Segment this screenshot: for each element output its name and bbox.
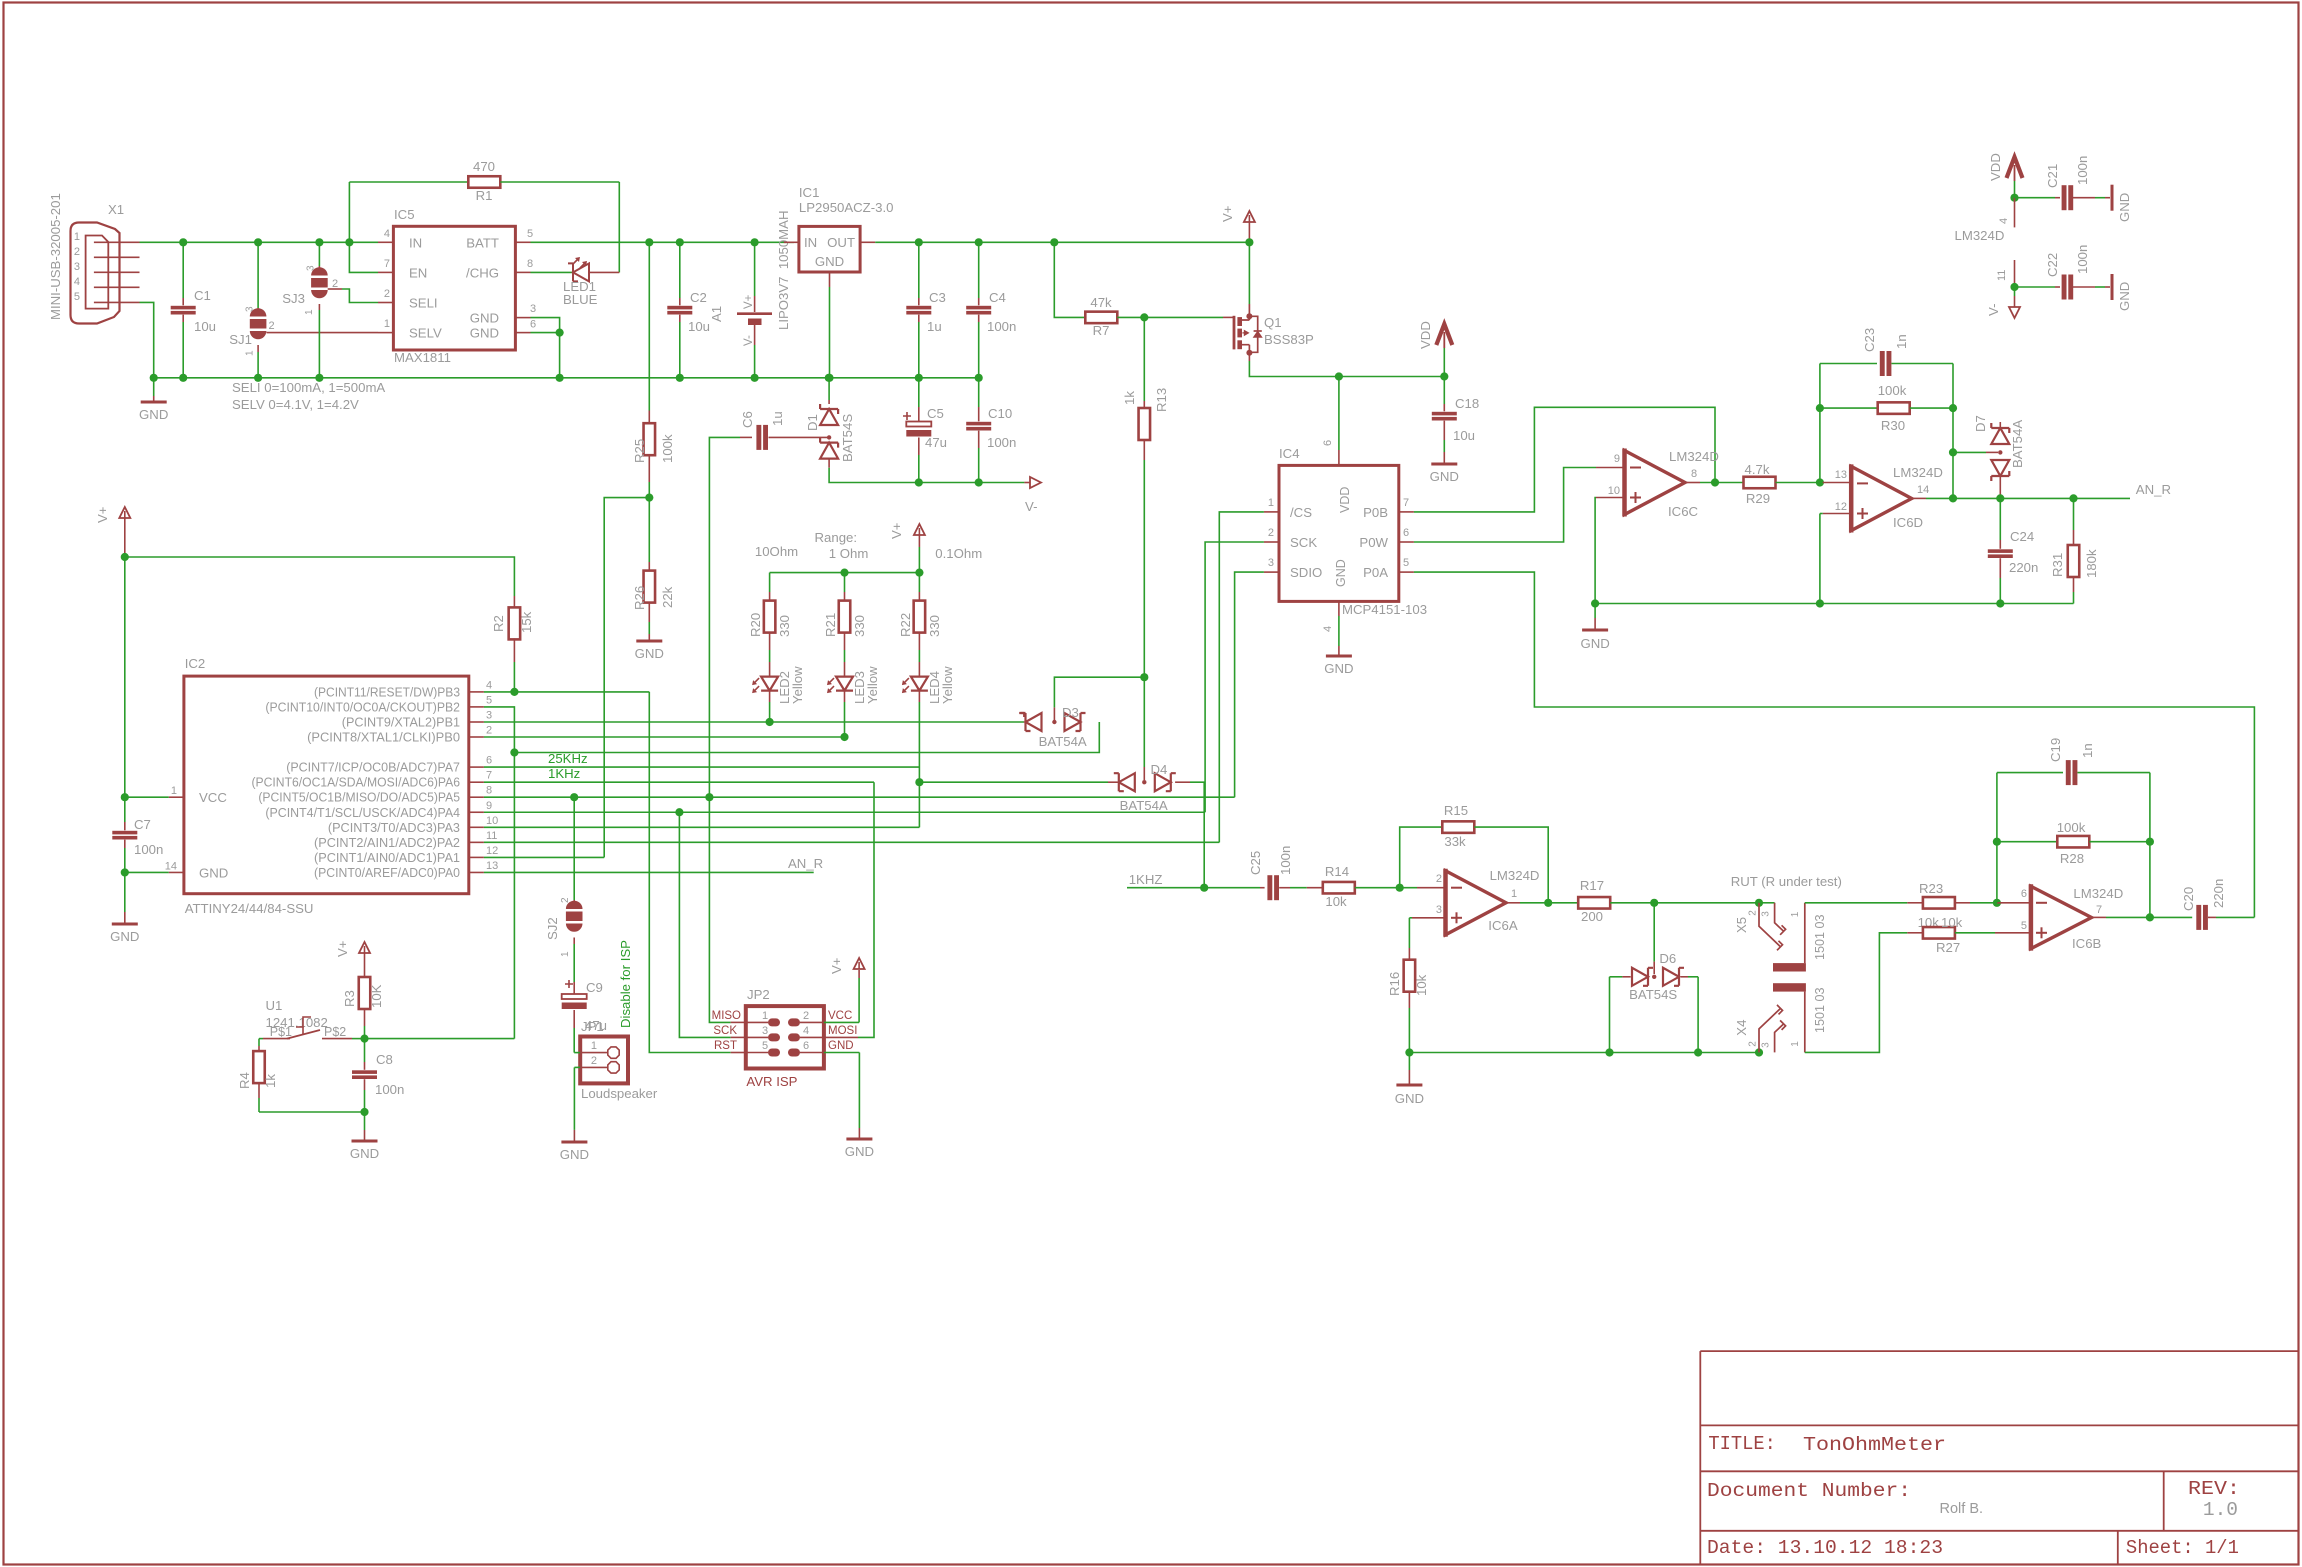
svg-text:X1: X1 [108,202,124,217]
svg-text:LM324D: LM324D [1955,228,2005,243]
svg-text:U1: U1 [266,998,283,1013]
supply V- arrow below pin11 [1986,287,2020,318]
capacitor C10 [966,378,1016,483]
svg-text:GND: GND [199,866,228,881]
connector X4 1501 03 [1734,983,1827,1052]
label 1KHz [548,766,580,781]
JP1 pin 2 [574,1055,619,1073]
svg-text:2: 2 [1268,527,1274,539]
svg-text:C21: C21 [2045,164,2060,188]
connector JP2 AVR ISP box [746,987,824,1089]
JP2 signal names [712,1010,858,1052]
svg-text:8: 8 [1691,468,1697,480]
IC2 pin 3 PB1 [342,710,492,730]
svg-text:(PCINT2/AIN1/ADC2)PA2: (PCINT2/AIN1/ADC2)PA2 [314,836,460,850]
capacitor C6 [709,411,829,797]
svg-text:C5: C5 [927,406,944,421]
svg-text:GND: GND [1324,661,1353,676]
svg-text:R23: R23 [1919,881,1943,896]
svg-text:100n: 100n [375,1082,404,1097]
svg-text:C24: C24 [2010,529,2034,544]
svg-text:2: 2 [591,1055,597,1067]
IC2 pin 6 PA7 [286,755,492,775]
wire PA6 net 1KHz [484,781,874,783]
supply V+ at R3 [335,940,370,966]
svg-text:RUT (R under test): RUT (R under test) [1731,874,1842,889]
svg-text:TITLE:: TITLE: [1708,1433,1776,1455]
svg-text:100k: 100k [1878,383,1907,398]
junction D7 branch [1949,448,1957,456]
ground GND below JP2 [845,1139,874,1159]
resistor R31 [2050,498,2099,603]
svg-text:C6: C6 [740,411,755,428]
resistor R14 [1307,864,1400,909]
wire JP1 pin2 to GND [573,1067,575,1142]
junction SJ1 top [254,238,262,246]
svg-text:220n: 220n [2009,560,2038,575]
svg-text:V+: V+ [335,940,350,957]
capacitor C25 [1204,846,1307,901]
svg-text:11: 11 [486,830,497,842]
svg-text:1u: 1u [770,411,785,426]
wire R14 node to pin2 [1400,887,1446,889]
svg-text:7: 7 [384,258,390,270]
transistor Q1 BSS83P [1234,242,1314,355]
junction R29-pin13 node [1816,478,1824,486]
svg-text:V+: V+ [743,294,755,309]
solder jumper SJ3 [311,242,328,377]
ground GND below IC4 [1324,656,1353,676]
junction A1 bottom [751,374,759,382]
wire R1-EN riser [349,182,378,272]
svg-text:V+: V+ [1220,205,1235,222]
svg-text:V+: V+ [95,506,110,523]
capacitor C20 [2181,879,2254,930]
IC4 pin 5 P0A [1363,557,1414,580]
svg-text:C7: C7 [134,817,151,832]
svg-text:GND: GND [350,1146,379,1161]
diode D1 BAT54S dual [805,378,919,483]
svg-text:R15: R15 [1444,803,1468,818]
X1 pin 1 [74,231,140,243]
svg-text:1: 1 [171,785,177,797]
wire X4 pin1 to R27 [1805,933,1908,1053]
junction V+ rail end [1245,238,1253,246]
IC2 pin 8 PA5 [258,785,492,805]
wire LED4 to PA3 [918,782,920,827]
label C1 [194,288,216,334]
junction EN riser on rail [345,238,353,246]
svg-text:100n: 100n [2075,245,2090,274]
junction GND tap [150,374,158,382]
wire X1 pin5 to GND rail [140,302,154,377]
battery A1 LIPO3V7 1050MAH [709,211,791,378]
svg-text:C23: C23 [1862,328,1877,352]
junction V+ node [121,553,129,561]
svg-text:1: 1 [591,1040,597,1052]
wire PA0 net AN_R [484,871,814,873]
capacitor C22 [2015,245,2111,300]
svg-text:4: 4 [1998,218,2010,224]
diode D7 BAT54A dual [1973,415,2025,498]
svg-text:R21: R21 [823,613,838,637]
wire PA1 net [484,856,604,858]
wire SCK drop to JP2 [679,812,745,1037]
svg-text:100n: 100n [2075,156,2090,185]
capacitor C9 electrolytic [562,980,607,1053]
svg-text:LIPO3V7 1050MAH: LIPO3V7 1050MAH [776,211,791,331]
title Document Number [1707,1480,1911,1502]
wire PB1 net [484,721,1024,723]
JP1 pin 1 [574,1040,619,1058]
note SELI SELV [232,380,385,412]
svg-text:11: 11 [1996,270,2008,281]
junction aGND at IC6D+ [1816,599,1824,607]
wire feedback left riser [1819,364,1821,483]
supply VDD arrow [1418,321,1452,376]
svg-text:IC6D: IC6D [1893,515,1923,530]
label 0.1Ohm [935,546,982,561]
svg-text:100n: 100n [134,842,163,857]
label AN_R [2136,482,2171,497]
svg-text:10K: 10K [369,984,384,1008]
connector X5 1501 03 [1734,903,1827,972]
svg-text:P0A: P0A [1363,565,1388,580]
svg-text:R27: R27 [1936,940,1960,955]
svg-text:IN: IN [804,235,817,250]
wire D6 mid riser [1653,903,1655,974]
svg-text:IC6B: IC6B [2072,936,2102,951]
svg-text:R14: R14 [1325,864,1349,879]
wire SJ3 pin2 to IC5 SELI [328,289,378,303]
resistor R1 [349,159,619,203]
junction brail X4 [1755,1048,1763,1056]
svg-text:(PCINT0/AREF/ADC0)PA0: (PCINT0/AREF/ADC0)PA0 [314,866,460,880]
svg-text:GND: GND [139,407,168,422]
svg-text:200: 200 [1581,909,1603,924]
svg-text:IC6C: IC6C [1668,504,1699,519]
svg-text:BAT54A: BAT54A [1120,798,1168,813]
svg-text:C19: C19 [2048,738,2063,762]
title TITLE [1708,1433,1946,1456]
wire feedback right riser [1952,364,1954,499]
JP2 pin labels [762,1010,809,1052]
wire JP2 GND [824,1053,860,1140]
diode LED1 BLUE [531,257,620,307]
svg-text:ATTINY24/44/84-SSU: ATTINY24/44/84-SSU [185,901,314,916]
svg-text:V+: V+ [829,957,844,974]
IC5 pin 5 BATT [466,228,533,251]
svg-text:BAT54A: BAT54A [1039,734,1087,749]
junction GND node IC2 [121,868,129,876]
svg-text:AVR ISP: AVR ISP [746,1074,797,1089]
junction IC5 GND join [556,329,564,337]
svg-text:IC5: IC5 [394,207,415,222]
svg-text:LP2950ACZ-3.0: LP2950ACZ-3.0 [799,200,894,215]
svg-text:47u: 47u [925,435,947,450]
op-amp IC6A LM324D [1436,868,1540,937]
solder jumper SJ1 [250,242,267,377]
wire divider to PA1 column [604,498,649,858]
wire X5 pin1 to R23 [1805,902,1908,904]
svg-text:1u: 1u [927,319,942,334]
junction D1 top rail [825,374,833,382]
svg-text:(PCINT3/T0/ADC3)PA3: (PCINT3/T0/ADC3)PA3 [328,821,460,835]
wire SJ1 pin2 to IC5 SELV [267,332,379,334]
IC IC1 LP2950ACZ-3.0 box [799,185,894,272]
wire V+ down to VCC [124,557,126,797]
junction SJ3 bottom [315,374,323,382]
svg-text:SJ1: SJ1 [229,332,252,347]
junction PB1 at LED2 [766,718,774,726]
svg-text:EN: EN [409,266,427,281]
svg-text:1: 1 [304,309,315,315]
wire D6 right down [1697,977,1699,1053]
IC6A pin3 wire [1409,917,1445,919]
svg-text:R29: R29 [1746,491,1770,506]
svg-text:9: 9 [1614,453,1620,465]
svg-text:MOSI: MOSI [828,1025,857,1037]
svg-text:GND: GND [560,1147,589,1162]
wire PB0 net [484,736,845,738]
X1 pin 4 [74,276,140,288]
svg-text:V+: V+ [889,522,904,539]
svg-text:VCC: VCC [828,1010,852,1022]
diode D3 BAT54A dual [1019,677,1144,749]
wire bottom rail [1409,1052,1759,1054]
svg-text:GND: GND [815,254,844,269]
svg-text:BAT54S: BAT54S [1629,987,1677,1002]
svg-text:2: 2 [1748,910,1759,916]
IC IC5 MAX1811 box [393,207,515,365]
label 1KHZ stub [1127,872,1204,888]
IC2 pin 7 PA6 [252,770,493,790]
junction PB3 at R2 [510,688,518,696]
IC4 pin 6 VDD top [1322,377,1352,514]
svg-text:Date: 13.10.12 18:23: Date: 13.10.12 18:23 [1707,1537,1943,1559]
capacitor C2 [667,242,710,377]
junction C1 top [179,238,187,246]
svg-text:GND: GND [2117,193,2132,222]
junction IC6B out riser [2146,913,2154,921]
svg-text:10u: 10u [688,319,710,334]
connector X1 MINI-USB-32005-201 outline [48,193,124,323]
svg-text:BLUE: BLUE [563,292,598,307]
supply V- arrow right [1024,477,1041,514]
capacitor C21 [2015,156,2111,211]
svg-text:33k: 33k [1444,834,1466,849]
IC6D pin 12 wire [1820,514,1851,604]
svg-text:3: 3 [1268,557,1274,569]
svg-text:(PCINT4/T1/SCL/USCK/ADC4)PA4: (PCINT4/T1/SCL/USCK/ADC4)PA4 [265,806,460,820]
wire SDIO to PA5 [1235,572,1264,797]
junction VCC node [121,793,129,801]
junction 3V rail at C3 [915,238,923,246]
junction AN_R at D7 [1996,494,2004,502]
svg-text:GND: GND [828,1040,854,1052]
svg-text:LM324D: LM324D [1490,868,1540,883]
junction C3 bottom [915,374,923,382]
LM324 pin 4 stub [1998,198,2015,228]
IC5 pin 1 SELV [378,318,442,341]
wire RUT row [1654,902,1774,904]
svg-text:SCK: SCK [1290,535,1317,550]
wire MISO column [709,797,745,1022]
resistor R3 [342,966,384,1039]
label 10Ohm [755,544,798,559]
junction BATT rail at C2 [676,238,684,246]
svg-text:SELV: SELV [409,326,442,341]
junction C2 bottom [676,374,684,382]
svg-text:220n: 220n [2211,879,2226,908]
wire MOSI column [824,782,874,1037]
svg-text:6: 6 [1322,440,1334,446]
svg-text:R20: R20 [748,613,763,637]
svg-text:VCC: VCC [199,790,227,805]
svg-text:13: 13 [1835,469,1847,481]
svg-text:6: 6 [803,1040,809,1052]
svg-text:LM324D: LM324D [1893,465,1943,480]
svg-text:C3: C3 [929,290,946,305]
label LM324D power [1955,228,2005,243]
IC6C output wire [1685,482,1744,484]
svg-text:P0B: P0B [1363,505,1388,520]
svg-text:P$1: P$1 [270,1025,292,1039]
svg-text:10k: 10k [1414,974,1429,996]
wire P0B loop to IC6C output [1414,407,1715,512]
junction 3V rail at C4 [975,238,983,246]
capacitor C4 [966,242,1016,377]
junction BATT rail at R25 [645,238,653,246]
junction X5 contacts [1755,899,1763,907]
IC4 pin 6 P0W [1359,527,1413,550]
svg-text:Range:: Range: [815,530,858,545]
IC5 pin 6 GND [470,319,536,341]
svg-text:14: 14 [1917,484,1929,496]
IC IC4 MCP4151-103 box [1279,446,1427,617]
svg-text:7: 7 [1403,497,1409,509]
solder jumper SJ2 [545,797,583,982]
junction IC6C output [1711,478,1719,486]
junction C1 bottom [179,374,187,382]
IC5 pin 4 IN [378,228,422,251]
svg-text:MAX1811: MAX1811 [394,350,451,365]
resistor R13 [1122,317,1169,677]
svg-text:D6: D6 [1659,951,1676,966]
wire LED1 loop down [618,182,620,272]
svg-text:VDD: VDD [1988,153,2003,181]
svg-text:6: 6 [486,755,492,767]
svg-text:C8: C8 [376,1052,393,1067]
svg-text:GND: GND [1430,469,1459,484]
junction LM324 pin4 [2010,194,2018,202]
svg-text:330: 330 [777,615,792,637]
ground GND right of C22 [2112,274,2132,311]
junction gate node [1140,313,1148,321]
wire R13 to D4 [1143,677,1145,780]
svg-text:12: 12 [1835,501,1847,513]
capacitor C19 [1997,738,2150,785]
wire IC6C pin10 to GND [1594,498,1597,604]
svg-text:4.7k: 4.7k [1745,462,1770,477]
svg-text:7: 7 [2096,904,2102,916]
svg-text:RST: RST [714,1040,737,1052]
svg-text:R26: R26 [632,586,647,610]
IC2 pin 5 PB2 [265,694,492,714]
IC2 pin 4 PB3 [314,679,492,699]
svg-text:R16: R16 [1387,972,1402,996]
switch U1 1241.1082 [259,998,365,1039]
junction battery divider node [645,494,653,502]
svg-text:C9: C9 [586,980,603,995]
junction 3V rail at R7 [1050,238,1058,246]
svg-text:4: 4 [74,276,80,288]
svg-text:GND: GND [470,326,499,341]
IC2 pin 2 PB0 [307,725,492,745]
svg-text:1: 1 [1790,911,1801,917]
wire PA7 net 25KHz [484,766,920,768]
svg-text:D1: D1 [805,414,820,431]
label Disable for ISP [618,940,633,1028]
wire P0W to IC6C pin9 [1414,468,1596,543]
svg-text:R2: R2 [491,615,506,632]
supply VDD arrow top right [1988,153,2023,198]
svg-text:C18: C18 [1455,396,1479,411]
svg-text:3: 3 [1760,911,1771,917]
svg-text:C20: C20 [2181,887,2196,911]
svg-text:(PCINT1/AIN0/ADC1)PA1: (PCINT1/AIN0/ADC1)PA1 [314,851,460,865]
svg-text:8: 8 [527,258,533,270]
svg-text:47k: 47k [1090,295,1112,310]
svg-text:SELV 0=4.1V, 1=4.2V: SELV 0=4.1V, 1=4.2V [232,397,359,412]
svg-text:R28: R28 [2060,851,2084,866]
IC2 pin 9 PA4 [265,800,492,820]
svg-text:1.0: 1.0 [2203,1499,2238,1521]
svg-text:V-: V- [743,335,755,346]
svg-text:P$2: P$2 [324,1025,346,1039]
svg-text:2: 2 [384,288,390,300]
X1 pin 2 [74,246,140,258]
svg-text:1n: 1n [1894,334,1909,349]
svg-text:R13: R13 [1154,388,1169,412]
capacitor C8 [352,1039,404,1112]
svg-text:180k: 180k [2084,549,2099,578]
wire VCC [125,796,184,798]
title Date [1707,1537,1943,1559]
IC4 pin 7 P0B [1363,497,1414,520]
svg-text:BAT54A: BAT54A [2010,420,2025,468]
svg-text:SJ3: SJ3 [282,291,305,306]
wire analog GND rail [1595,603,2073,605]
IC2 pin 1 VCC [171,785,227,805]
svg-text:(PCINT6/OC1A/SDA/MOSI/ADC6)PA6: (PCINT6/OC1A/SDA/MOSI/ADC6)PA6 [252,776,461,790]
supply V+ at JP2 VCC [824,957,865,1022]
wire PB3 to JP2 RST [649,692,746,1053]
resistor R4 [237,1039,278,1112]
wire R15 feedback [1400,803,1549,903]
IC4 pin 3 SDIO [1264,557,1322,580]
junction V- at C10 [975,478,983,486]
svg-text:MINI-USB-32005-201: MINI-USB-32005-201 [48,193,63,320]
junction C4 bottom [975,374,983,382]
svg-text:3: 3 [1436,904,1442,916]
svg-text:10u: 10u [1453,428,1475,443]
svg-text:3: 3 [762,1025,768,1037]
resistor R22 + diode LED4 [898,573,955,783]
IC6C pin 10 stub [1596,497,1625,499]
svg-text:BAT54S: BAT54S [840,414,855,462]
capacitor C1 [171,242,196,377]
